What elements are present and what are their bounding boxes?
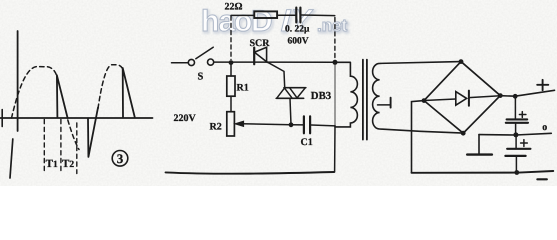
svg-text:.net: .net xyxy=(317,16,348,35)
svg-text:o: o xyxy=(542,122,547,133)
svg-text:R1: R1 xyxy=(237,83,249,94)
svg-text:S: S xyxy=(198,72,204,83)
svg-text:SCR: SCR xyxy=(250,38,271,49)
svg-text:D: D xyxy=(251,5,273,38)
svg-text:3: 3 xyxy=(117,151,124,166)
svg-text:0. 22μ: 0. 22μ xyxy=(285,25,310,35)
svg-text:600V: 600V xyxy=(288,37,309,47)
svg-text:22Ω: 22Ω xyxy=(225,2,243,13)
svg-text:T2: T2 xyxy=(62,158,74,170)
svg-text:T1: T1 xyxy=(46,158,58,170)
svg-text:220V: 220V xyxy=(174,113,197,124)
svg-text:DB3: DB3 xyxy=(311,90,332,102)
svg-text:C1: C1 xyxy=(301,137,313,148)
svg-text:R2: R2 xyxy=(210,122,222,133)
